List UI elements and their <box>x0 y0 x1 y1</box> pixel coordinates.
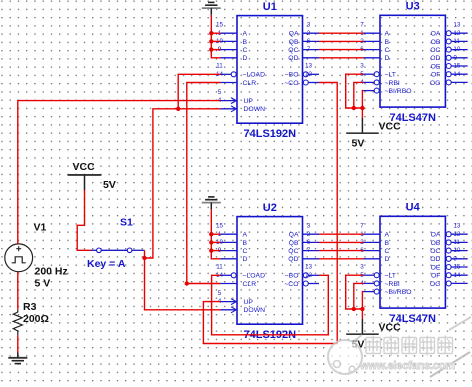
svg-text:B: B <box>243 39 248 46</box>
svg-text:~RBI: ~RBI <box>385 80 400 87</box>
svg-text:R3: R3 <box>23 301 37 313</box>
wire branch to U1 DOWN <box>145 109 221 258</box>
svg-text:DOWN: DOWN <box>244 106 266 113</box>
svg-text:C: C <box>385 248 390 255</box>
svg-text:200Ω: 200Ω <box>23 313 49 325</box>
svg-text:OF: OF <box>431 273 440 280</box>
junction CLR corner <box>185 281 189 285</box>
svg-text:A: A <box>385 31 390 38</box>
junction node at S1 branch <box>142 256 146 260</box>
svg-text:S1: S1 <box>120 217 133 229</box>
power VCC for U4 <box>346 319 379 334</box>
svg-text:B: B <box>243 240 248 247</box>
svg-text:5: 5 <box>218 89 222 96</box>
svg-text:6: 6 <box>307 239 311 246</box>
svg-text:7: 7 <box>307 46 311 53</box>
svg-text:~BO: ~BO <box>285 72 299 79</box>
wire U3 ~LT ~RBI ~BI/RBO to VCC <box>346 74 364 118</box>
svg-text:QA: QA <box>289 232 299 239</box>
svg-text:10: 10 <box>453 46 461 53</box>
label 5V U3 <box>352 137 365 149</box>
svg-text:14: 14 <box>453 272 461 279</box>
svg-text:CLR: CLR <box>243 80 257 87</box>
svg-text:U4: U4 <box>406 202 421 214</box>
svg-text:U3: U3 <box>406 1 420 13</box>
svg-text:~CO: ~CO <box>284 281 298 288</box>
wire U1 CLR to U2 CLR <box>187 83 221 284</box>
svg-text:UP: UP <box>244 299 254 306</box>
svg-text:~LT: ~LT <box>385 72 396 79</box>
svg-text:3: 3 <box>360 264 364 271</box>
svg-text:A: A <box>385 232 390 239</box>
svg-text:~LT: ~LT <box>385 273 396 280</box>
svg-text:12: 12 <box>453 231 461 238</box>
wire U2 QB to U4 B <box>319 241 364 243</box>
label 200 ohm <box>23 313 49 325</box>
svg-text:14: 14 <box>453 71 461 78</box>
label 5V left <box>103 179 116 191</box>
svg-text:~BI/RBO: ~BI/RBO <box>385 289 412 296</box>
svg-text:VCC: VCC <box>73 161 96 173</box>
svg-text:V1: V1 <box>34 222 47 234</box>
svg-text:QB: QB <box>289 39 299 46</box>
svg-text:CLR: CLR <box>243 281 257 288</box>
ground above U2 <box>202 197 221 210</box>
IC U2 74LS192N up/down counter <box>216 202 319 341</box>
wire U1 QA to U3 A <box>319 32 364 34</box>
power VCC for U3 <box>346 118 379 133</box>
svg-text:QC: QC <box>288 248 298 255</box>
svg-text:15: 15 <box>216 223 224 230</box>
wire U1 QB to U3 B <box>319 40 364 42</box>
svg-text:~LOAD: ~LOAD <box>243 72 266 79</box>
svg-text:A: A <box>243 232 248 239</box>
voltage source V1 clock <box>5 244 33 272</box>
svg-text:74LS192N: 74LS192N <box>244 128 297 140</box>
svg-text:5: 5 <box>218 290 222 297</box>
svg-text:OF: OF <box>431 72 440 79</box>
svg-text:7: 7 <box>360 22 364 29</box>
wire U1 QC to U3 C <box>319 49 364 51</box>
svg-text:QC: QC <box>288 47 298 54</box>
svg-text:200 Hz: 200 Hz <box>35 266 68 278</box>
wire U1 ~CO to U2 UP <box>203 83 337 344</box>
svg-text:~RBI: ~RBI <box>385 281 400 288</box>
label 5V U4 <box>352 338 365 350</box>
svg-text:OD: OD <box>430 256 440 263</box>
svg-text:OG: OG <box>430 281 441 288</box>
svg-text:U1: U1 <box>263 1 277 13</box>
ground below R3 <box>8 352 27 363</box>
svg-text:D: D <box>385 256 390 263</box>
wire S1 to U2 DOWN <box>145 250 221 309</box>
decorative watermark (not labelled further) <box>328 317 471 377</box>
svg-text:OE: OE <box>431 264 441 271</box>
svg-text:OG: OG <box>430 80 441 87</box>
wire ground to U1 data inputs <box>211 15 220 58</box>
svg-text:U2: U2 <box>263 202 277 214</box>
svg-text:~CO: ~CO <box>284 80 298 87</box>
svg-text:D: D <box>243 55 248 62</box>
svg-text:3: 3 <box>360 63 364 70</box>
svg-text:QB: QB <box>289 240 299 247</box>
IC U3 74LS47N BCD-to-7seg decoder <box>360 1 467 124</box>
svg-text:OC: OC <box>430 47 440 54</box>
svg-text:C: C <box>243 248 248 255</box>
wire R3 to ground <box>17 335 19 352</box>
label 5 V <box>35 278 51 290</box>
svg-text:15: 15 <box>453 264 461 271</box>
svg-text:11: 11 <box>216 63 223 70</box>
junction U1 DOWN / ~LOAD <box>176 107 180 111</box>
wire U2 QD to U4 D <box>319 258 364 260</box>
svg-text:7: 7 <box>307 247 311 254</box>
wire VCC to S1 <box>77 190 91 250</box>
svg-text:12: 12 <box>305 272 313 279</box>
svg-text:OA: OA <box>431 232 441 239</box>
svg-text:~BI/RBO: ~BI/RBO <box>385 88 412 95</box>
svg-text:5 V: 5 V <box>35 278 51 290</box>
svg-text:12: 12 <box>453 30 461 37</box>
svg-text:13: 13 <box>453 223 461 230</box>
junction dots U1 inputs <box>209 31 213 52</box>
wire ground to U2 data inputs <box>211 209 220 258</box>
svg-text:6: 6 <box>307 38 311 45</box>
svg-text:13: 13 <box>453 22 461 29</box>
svg-text:OB: OB <box>431 240 441 247</box>
svg-text:13: 13 <box>305 264 313 271</box>
svg-text:www.elecfans.com: www.elecfans.com <box>359 360 455 372</box>
svg-text:D: D <box>385 55 390 62</box>
svg-text:A: A <box>243 31 248 38</box>
svg-text:C: C <box>243 47 248 54</box>
svg-text:2: 2 <box>307 30 311 37</box>
svg-text:11: 11 <box>216 264 223 271</box>
wire U4 ~LT ~RBI ~BI/RBO to VCC <box>346 275 364 319</box>
svg-text:B: B <box>385 39 390 46</box>
IC U4 74LS47N BCD-to-7seg decoder <box>360 202 467 325</box>
svg-text:5V: 5V <box>103 179 116 191</box>
junction dots U2 inputs <box>209 232 213 253</box>
power VCC left <box>68 175 102 190</box>
svg-text:11: 11 <box>453 239 460 246</box>
svg-text:3: 3 <box>307 223 311 230</box>
wire U2 QC to U4 C <box>319 250 364 252</box>
svg-text:7: 7 <box>360 223 364 230</box>
wire U2 QA to U4 A <box>319 233 364 235</box>
svg-text:OE: OE <box>431 63 441 70</box>
svg-text:D: D <box>243 256 248 263</box>
svg-text:9: 9 <box>453 54 457 61</box>
svg-text:OD: OD <box>430 55 440 62</box>
label Key = A <box>87 258 126 270</box>
svg-text:~BO: ~BO <box>285 273 299 280</box>
svg-text:OA: OA <box>431 31 441 38</box>
label VCC left <box>73 161 96 173</box>
switch S1 <box>91 248 145 253</box>
svg-text:12: 12 <box>305 71 313 78</box>
svg-text:15: 15 <box>453 63 461 70</box>
svg-text:QD: QD <box>288 256 298 263</box>
wire U1 QD to U3 D <box>319 57 364 59</box>
svg-text:2: 2 <box>307 231 311 238</box>
svg-text:9: 9 <box>453 255 457 262</box>
svg-text:UP: UP <box>244 98 254 105</box>
svg-text:QA: QA <box>289 31 299 38</box>
label V1 <box>34 222 47 234</box>
svg-text:B: B <box>385 240 390 247</box>
junction dots U3 VCC net <box>352 106 365 110</box>
junction dots U4 VCC net <box>352 307 365 311</box>
label S1 <box>120 217 133 229</box>
label 200 Hz <box>35 266 68 278</box>
wire V1 to R3 <box>17 272 19 310</box>
svg-text:QD: QD <box>288 55 298 62</box>
IC U1 74LS192N up/down counter <box>216 1 319 140</box>
svg-text:VCC: VCC <box>379 120 402 132</box>
svg-text:15: 15 <box>216 22 224 29</box>
svg-text:DOWN: DOWN <box>244 307 266 314</box>
svg-text:OB: OB <box>431 39 441 46</box>
ground above U1 <box>202 2 221 15</box>
wire U2 ~BO to U2 ~LOAD <box>212 275 329 335</box>
svg-text:5V: 5V <box>352 137 365 149</box>
wire V1 to U1 UP <box>18 101 221 244</box>
svg-text:Key = A: Key = A <box>87 258 126 270</box>
label VCC U3 <box>379 120 402 132</box>
svg-text:~LOAD: ~LOAD <box>243 273 266 280</box>
label VCC U4 <box>379 321 402 333</box>
svg-text:3: 3 <box>307 22 311 29</box>
svg-text:VCC: VCC <box>379 321 402 333</box>
svg-text:C: C <box>385 47 390 54</box>
label R3 <box>23 301 37 313</box>
svg-text:13: 13 <box>305 63 313 70</box>
resistor R3 <box>13 310 22 336</box>
svg-text:10: 10 <box>453 247 461 254</box>
wire U1 ~LOAD tie <box>178 74 220 109</box>
svg-text:11: 11 <box>453 38 460 45</box>
svg-text:OC: OC <box>430 248 440 255</box>
